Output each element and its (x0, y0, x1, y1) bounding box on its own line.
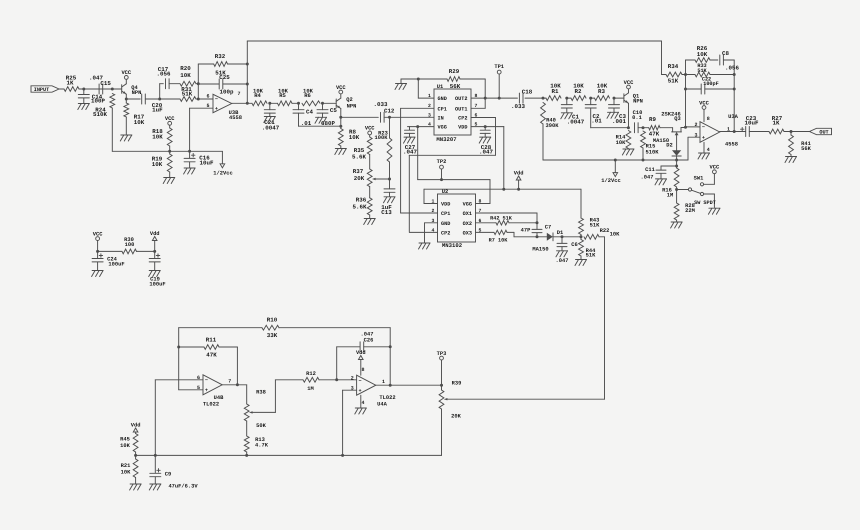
trimmer R37 (353, 155, 372, 187)
svg-text:+: + (358, 388, 361, 394)
resistor R34 (662, 63, 686, 85)
wire pin2 (401, 212, 438, 214)
svg-text:VGG: VGG (463, 202, 472, 208)
svg-text:INPUT: INPUT (34, 87, 50, 93)
node BG (96, 250, 99, 253)
wire (685, 60, 687, 128)
svg-text:51K: 51K (697, 68, 707, 74)
resistor R4 (252, 87, 267, 105)
capacitor C1 (561, 98, 584, 125)
wire (246, 41, 248, 103)
svg-text:R10: R10 (267, 316, 278, 323)
wire (232, 102, 252, 104)
svg-text:TP1: TP1 (494, 64, 504, 70)
svg-text:R15: R15 (646, 143, 656, 149)
resistor R32 (198, 53, 247, 76)
power VCC Q1 (624, 80, 634, 93)
svg-text:1M: 1M (667, 192, 673, 198)
node AB (627, 126, 630, 129)
wire (178, 328, 180, 390)
resistor R7 (476, 230, 547, 243)
svg-text:R45: R45 (120, 436, 130, 442)
node AZ (389, 345, 392, 348)
capacitor C7 (521, 223, 552, 237)
svg-text:R38: R38 (256, 390, 266, 396)
svg-text:7: 7 (237, 91, 240, 97)
svg-text:.056: .056 (157, 71, 171, 78)
ground (671, 222, 683, 228)
svg-text:1/2Vcc: 1/2Vcc (601, 178, 620, 184)
node AN (733, 130, 736, 133)
ground (315, 117, 327, 123)
wire vgg column (417, 127, 419, 180)
node BC (154, 454, 157, 457)
svg-text:0.1: 0.1 (632, 115, 642, 121)
node BF (134, 454, 137, 457)
power VCC U3A (699, 100, 709, 121)
ground (575, 260, 587, 266)
capacitor C21 (262, 103, 280, 131)
svg-text:50K: 50K (256, 423, 266, 429)
wire pin5 (179, 389, 203, 391)
wire rail halfvcc-left (112, 151, 222, 164)
resistor R30 (98, 237, 155, 254)
wire (389, 328, 391, 386)
ground (78, 104, 90, 110)
svg-text:OUT: OUT (819, 130, 828, 136)
svg-text:56K: 56K (801, 146, 811, 152)
power 1/2Vcc (213, 164, 232, 177)
power VCC Q4 (121, 70, 131, 84)
svg-text:VCC: VCC (624, 80, 634, 86)
capacitor C24 (92, 251, 124, 270)
ground (264, 117, 276, 123)
svg-text:VCC: VCC (699, 100, 709, 106)
node AO (790, 130, 793, 133)
svg-text:C6: C6 (571, 242, 577, 248)
transistor Q3 2SK246 (660, 111, 686, 135)
svg-text:−: − (215, 97, 218, 103)
svg-text:Vdd: Vdd (150, 231, 160, 237)
wire (236, 347, 238, 385)
resistor R43 (579, 189, 601, 237)
node W (484, 125, 487, 128)
wiper R39 (444, 398, 605, 400)
svg-text:R29: R29 (449, 68, 460, 75)
svg-text:100K: 100K (375, 135, 389, 141)
power 1/2Vcc stub (601, 160, 620, 184)
svg-text:MN3102: MN3102 (442, 242, 463, 249)
op-amp U4B (197, 375, 231, 408)
node X (542, 97, 545, 100)
svg-text:51K: 51K (590, 222, 600, 228)
ground (556, 251, 568, 257)
svg-text:510K: 510K (93, 111, 107, 118)
svg-text:R20: R20 (180, 65, 191, 72)
ground (120, 135, 132, 141)
svg-text:100: 100 (125, 242, 135, 248)
ground (419, 243, 431, 249)
wire (376, 384, 442, 386)
power Vdd MN3102 (514, 171, 524, 190)
wire (196, 64, 198, 99)
svg-text:.056: .056 (725, 65, 739, 72)
svg-text:C18: C18 (522, 88, 533, 95)
node AK (684, 88, 687, 91)
svg-text:R9: R9 (649, 116, 656, 123)
svg-text:C4: C4 (306, 109, 313, 116)
capacitor C16 (184, 151, 214, 167)
svg-text:10K: 10K (180, 72, 191, 79)
svg-text:CP1: CP1 (438, 106, 447, 112)
svg-text:C7: C7 (545, 224, 551, 230)
svg-text:8: 8 (361, 367, 364, 373)
node AF (675, 159, 678, 162)
svg-text:4558: 4558 (229, 115, 242, 121)
node AD (614, 159, 617, 162)
capacitor C20 (142, 94, 163, 113)
node C (125, 98, 128, 101)
svg-text:C11: C11 (645, 167, 655, 173)
svg-text:D2: D2 (666, 143, 672, 149)
capacitor C26 (337, 332, 391, 380)
node AU (561, 235, 564, 238)
resistor R3 (591, 83, 610, 101)
diode D1 MA150 (532, 230, 581, 253)
testpoint TP1 (494, 64, 504, 98)
svg-text:2: 2 (351, 375, 354, 381)
svg-text:10K: 10K (120, 443, 130, 449)
svg-text:−: − (702, 125, 705, 131)
node U (498, 97, 501, 100)
svg-text:100pF: 100pF (703, 81, 719, 87)
svg-text:R5: R5 (279, 92, 286, 99)
capacitor C3 (609, 98, 627, 125)
ground (708, 208, 720, 214)
svg-text:C15: C15 (100, 80, 111, 87)
op-amp U3A (694, 114, 738, 153)
power VCC rail (93, 231, 103, 251)
svg-text:R39: R39 (452, 381, 462, 387)
ground (479, 137, 491, 143)
resistor R31 (180, 86, 196, 102)
resistor R20 (180, 65, 196, 86)
svg-text:R32: R32 (215, 53, 226, 60)
resistor R1 (546, 83, 561, 101)
wire pin7 (471, 107, 485, 109)
resistor R18 (152, 116, 175, 151)
wire pin4 vgg (408, 126, 435, 128)
svg-text:VCC: VCC (365, 126, 375, 132)
wire (384, 116, 434, 118)
wire (638, 127, 649, 129)
svg-text:10K: 10K (152, 134, 163, 141)
ground (163, 178, 175, 184)
node K (297, 102, 300, 105)
svg-text:51K: 51K (668, 78, 679, 85)
node R (388, 178, 391, 181)
switch SW1 SPDT (677, 174, 716, 208)
capacitor C5 (317, 103, 337, 127)
node I (246, 102, 249, 105)
svg-text:C25: C25 (219, 74, 230, 81)
resistor R10 (179, 316, 391, 339)
resistor R40 (541, 103, 560, 161)
svg-text:4: 4 (361, 400, 364, 406)
svg-text:VCC: VCC (710, 165, 720, 171)
svg-text:22M: 22M (685, 208, 695, 214)
node AE (642, 159, 645, 162)
capacitor C18 (511, 88, 533, 109)
resistor R45 (120, 423, 140, 456)
ground U3A pin4 (698, 142, 710, 159)
svg-text:.047: .047 (556, 258, 569, 264)
resistor R8 (338, 117, 359, 148)
resistor R5 (270, 87, 299, 105)
wiper R38 (249, 380, 303, 414)
wire (169, 83, 180, 85)
svg-text:TP2: TP2 (437, 159, 447, 165)
wire pin5 vdd (471, 127, 504, 190)
input jack tag (31, 86, 64, 93)
svg-text:47uF/6.3V: 47uF/6.3V (168, 484, 198, 490)
svg-text:.047: .047 (641, 175, 654, 181)
svg-text:100P: 100P (91, 98, 105, 105)
wire rail halfvcc-right (543, 137, 688, 160)
wire rail lfo (136, 454, 442, 456)
node G (246, 63, 249, 66)
wire pin3 (688, 136, 700, 138)
capacitor C17 (157, 66, 171, 89)
resistor R12 (303, 371, 357, 392)
svg-text:OX2: OX2 (463, 221, 472, 227)
resistor R24 (93, 94, 115, 152)
ground (364, 219, 376, 225)
wire pin8 vgg (418, 180, 490, 204)
svg-text:Vdd: Vdd (514, 171, 524, 177)
svg-text:U1: U1 (437, 84, 443, 90)
capacitor C11 (641, 166, 677, 181)
svg-text:10K: 10K (697, 51, 708, 58)
svg-text:R3: R3 (598, 88, 605, 95)
svg-text:56K: 56K (450, 83, 461, 90)
svg-text:TL022: TL022 (203, 402, 219, 408)
node AM (684, 126, 687, 129)
svg-text:10uF: 10uF (200, 160, 214, 167)
svg-text:33K: 33K (267, 332, 278, 339)
svg-text:Vdd: Vdd (356, 350, 366, 356)
svg-text:6: 6 (206, 94, 209, 100)
wire pin3 gnd (425, 223, 438, 243)
svg-text:1K: 1K (773, 120, 780, 127)
svg-text:U2: U2 (442, 189, 448, 195)
wire (222, 384, 247, 386)
node J (268, 102, 271, 105)
svg-text:100uF: 100uF (108, 261, 124, 267)
node AV (580, 235, 583, 238)
wire (160, 84, 164, 99)
svg-text:SW SPDT: SW SPDT (694, 200, 716, 206)
resistor R23 (375, 117, 392, 179)
transistor Q1 (614, 93, 643, 105)
resistor R16 (662, 166, 679, 198)
IC U1 pin names (438, 96, 468, 131)
svg-text:TL022: TL022 (379, 395, 395, 401)
wire pin6 (155, 380, 203, 456)
wire (160, 98, 180, 100)
node M (339, 116, 342, 119)
capacitor C14 (78, 89, 105, 105)
svg-text:R6: R6 (304, 92, 311, 99)
resistor R21 (121, 455, 138, 483)
svg-text:51K: 51K (182, 90, 193, 97)
capacitor C8 (720, 50, 740, 72)
node F (197, 82, 200, 85)
svg-text:.0047: .0047 (567, 119, 585, 126)
IC U2 MN3102 box (438, 189, 476, 249)
ground (130, 484, 142, 490)
wire pin5 (190, 108, 213, 151)
resistor R25 (64, 75, 79, 92)
node AI (684, 73, 687, 76)
svg-text:TP3: TP3 (437, 351, 447, 357)
capacitor C25 (198, 74, 247, 96)
capacitor C2 (585, 98, 602, 128)
svg-text:20K: 20K (354, 175, 365, 182)
capacitor C28 (479, 127, 493, 156)
node AY (335, 378, 338, 381)
svg-text:5.6K: 5.6K (353, 204, 367, 211)
trimmer R39 (439, 381, 462, 456)
resistor R44 (579, 237, 597, 259)
resistor R9 (649, 116, 660, 137)
capacitor C9 (150, 455, 199, 489)
node H (246, 83, 249, 86)
node AW (177, 346, 180, 349)
resistor R6 (302, 87, 320, 105)
resistor R42 (476, 215, 538, 225)
power Vdd U4A (356, 350, 366, 375)
node AR (440, 178, 443, 181)
capacitor C12 (374, 101, 395, 122)
wire (676, 135, 678, 150)
capacitor C15 (89, 75, 111, 94)
svg-text:.01: .01 (591, 118, 602, 125)
node B (111, 88, 114, 91)
svg-text:R4: R4 (254, 92, 261, 99)
ground (149, 484, 161, 490)
svg-text:C26: C26 (364, 337, 374, 343)
ground (655, 179, 667, 185)
svg-text:C9: C9 (165, 471, 171, 477)
ground U4A pin4 (355, 395, 367, 414)
svg-text:R1: R1 (552, 88, 559, 95)
svg-text:510K: 510K (646, 150, 660, 156)
resistor R35 (352, 126, 375, 161)
wire (591, 127, 629, 129)
wire pin2 cp1 (401, 108, 434, 213)
svg-text:U3A: U3A (728, 114, 738, 120)
wire (126, 94, 140, 99)
svg-text:10K: 10K (349, 134, 360, 141)
wire pin7 (476, 213, 538, 223)
svg-text:CP2: CP2 (441, 230, 450, 236)
power VCC Q2 (336, 85, 346, 98)
svg-text:C13: C13 (381, 209, 392, 216)
svg-text:1M: 1M (307, 386, 313, 392)
svg-text:47K: 47K (649, 130, 660, 137)
svg-text:R2: R2 (575, 88, 582, 95)
node S (417, 78, 420, 81)
resistor R41 (789, 132, 812, 157)
ground (335, 149, 347, 155)
ground (184, 168, 196, 174)
testpoint TP3 (437, 351, 447, 385)
svg-text:IN: IN (438, 116, 444, 122)
svg-text:OX1: OX1 (463, 211, 472, 217)
capacitor C10 (632, 110, 642, 133)
IC U2 pin names (441, 202, 472, 237)
svg-text:.033: .033 (511, 103, 525, 110)
node D (158, 98, 161, 101)
svg-text:20K: 20K (451, 414, 461, 420)
wire (525, 97, 546, 99)
svg-text:CP2: CP2 (458, 116, 467, 122)
capacitor C19 (149, 251, 165, 287)
svg-text:VCC: VCC (165, 116, 175, 122)
ground (404, 137, 416, 143)
transistor Q2 (323, 97, 357, 109)
node AC (642, 126, 645, 129)
ground (384, 197, 396, 203)
ground (785, 157, 797, 163)
wire (299, 125, 342, 127)
svg-text:R21: R21 (121, 463, 131, 469)
svg-text:VDD: VDD (441, 202, 450, 208)
ground (395, 79, 407, 90)
svg-text:−: − (205, 378, 208, 384)
svg-text:D1: D1 (557, 230, 563, 236)
node O (168, 150, 171, 153)
svg-text:4558: 4558 (725, 142, 738, 148)
capacitor C23 (741, 115, 770, 136)
svg-text:Q2: Q2 (346, 97, 352, 103)
svg-text:51K: 51K (586, 253, 596, 259)
diode D2 MA150 (653, 138, 681, 166)
node AL (733, 88, 736, 91)
svg-text:1/2Vcc: 1/2Vcc (213, 170, 232, 176)
svg-text:MN3207: MN3207 (436, 136, 456, 143)
resistor R33 (686, 63, 735, 77)
svg-text:1: 1 (382, 379, 385, 385)
capacitor C6 (556, 237, 578, 264)
wire (720, 131, 746, 133)
node BH (153, 250, 156, 253)
resistor R14 (616, 131, 631, 149)
ground (149, 271, 161, 277)
resistor R17 (124, 99, 145, 135)
resistor R28 (674, 190, 695, 222)
wire pin1 vdd row (424, 189, 581, 203)
svg-text:R34: R34 (668, 63, 679, 70)
node T (484, 97, 487, 100)
svg-text:Q3: Q3 (674, 116, 680, 122)
wire pin6 cp2 (409, 118, 495, 232)
svg-text:VCC: VCC (336, 85, 346, 91)
node E (197, 98, 200, 101)
svg-text:C12: C12 (384, 107, 395, 114)
IC U1 pin numbers (428, 93, 478, 128)
